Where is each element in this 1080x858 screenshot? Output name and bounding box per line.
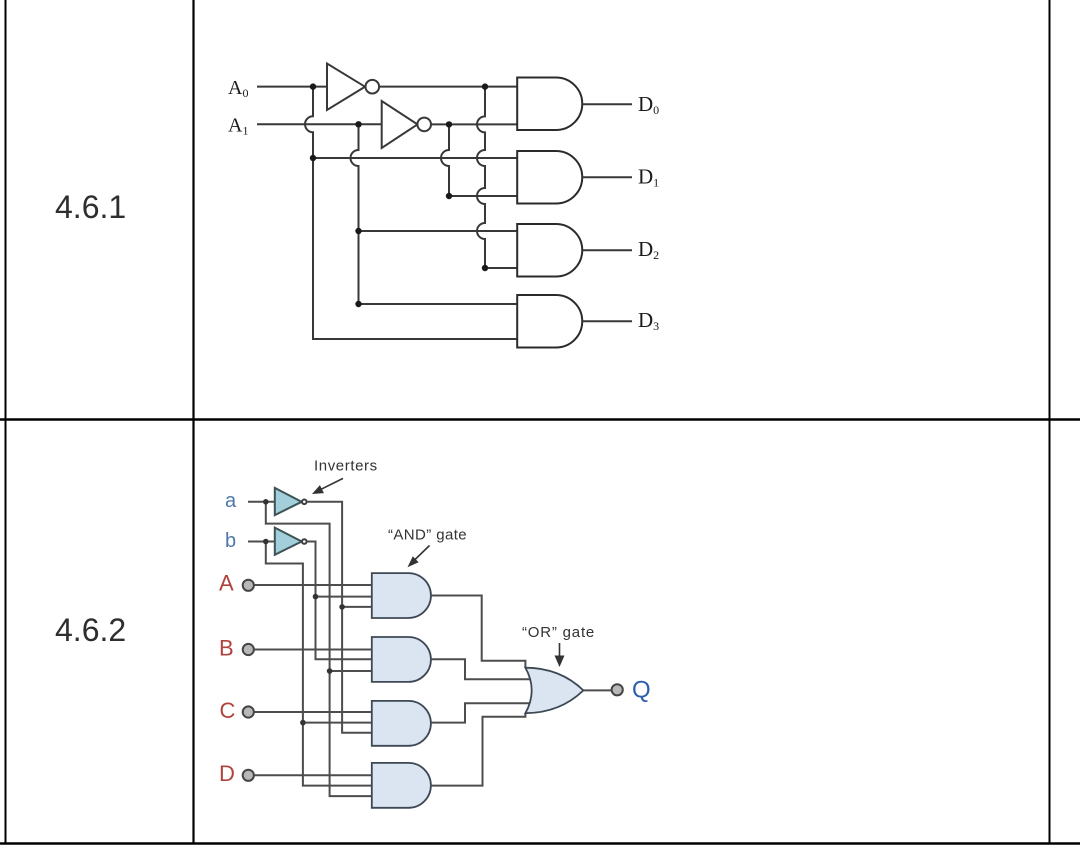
wire U2 output to gate G1 bbox=[431, 123, 518, 125]
wire NOT-b branch to AND1 bbox=[316, 596, 372, 598]
node NOT-A1 junction bbox=[446, 121, 452, 127]
wire A0 branch to gate G2 bbox=[313, 157, 518, 159]
AND gate 1 bbox=[372, 573, 431, 618]
node A1 junction bbox=[355, 121, 361, 127]
node NOT-A0 junction bbox=[482, 83, 488, 89]
input label A1 bbox=[228, 115, 248, 138]
annotation arrow to AND gate bbox=[408, 546, 430, 568]
terminal A bbox=[243, 580, 254, 591]
terminal D bbox=[243, 770, 254, 781]
wire output D0 bbox=[582, 103, 632, 105]
table bottom border bbox=[0, 842, 1080, 845]
wire b branch to AND4 bbox=[266, 542, 372, 786]
node A0-G2 junction bbox=[310, 155, 316, 161]
OR gate bbox=[525, 668, 583, 714]
svg-text:D: D bbox=[219, 761, 235, 786]
svg-text:Inverters: Inverters bbox=[314, 458, 378, 475]
node NOT-A0-G3 junction bbox=[482, 265, 488, 271]
terminal C bbox=[243, 706, 254, 717]
wire vertical NOT-A1 branch with hop bbox=[441, 124, 449, 196]
row label 4.6.1 bbox=[55, 189, 126, 225]
output label D0 bbox=[638, 92, 659, 117]
wire C input to AND3 bbox=[254, 711, 372, 713]
AND gate 2 bbox=[372, 637, 431, 682]
svg-text:a: a bbox=[225, 490, 237, 512]
table right border bbox=[1049, 0, 1051, 844]
row label 4.6.2 bbox=[55, 612, 126, 648]
wire b input bbox=[248, 541, 275, 543]
node A0 junction bbox=[310, 83, 316, 89]
wire A1 branch to gate G3 bbox=[359, 230, 518, 232]
terminal B bbox=[243, 644, 254, 655]
wire NOT-b to AND2 bbox=[307, 542, 372, 660]
node b AND3 junction bbox=[300, 720, 306, 726]
wire output D3 bbox=[582, 320, 632, 322]
table row separator bbox=[0, 418, 1080, 420]
annotation OR gate bbox=[522, 624, 595, 641]
wire AND4 output to OR bbox=[431, 713, 526, 785]
input label D bbox=[219, 761, 235, 786]
svg-text:“OR” gate: “OR” gate bbox=[522, 624, 595, 641]
input label A bbox=[219, 571, 234, 596]
inverter a bbox=[275, 488, 307, 515]
wire vertical A1 branch with hop bbox=[351, 124, 359, 304]
svg-text:Q: Q bbox=[632, 677, 651, 704]
AND gate G4 bbox=[517, 295, 582, 348]
inverter b bbox=[275, 528, 307, 555]
wire a branch to AND2 bbox=[330, 670, 372, 672]
svg-text:A: A bbox=[219, 571, 234, 596]
table left border bbox=[5, 0, 7, 844]
svg-text:4.6.1: 4.6.1 bbox=[55, 189, 126, 225]
wire a branch to AND4 bbox=[266, 502, 372, 796]
input label a bbox=[225, 490, 237, 512]
wire NOT-a branch to AND1 bbox=[342, 606, 372, 608]
node b junction bbox=[263, 539, 269, 545]
inverter U2 bbox=[382, 101, 431, 148]
node A1-G4 junction bbox=[355, 301, 361, 307]
svg-text:B: B bbox=[219, 636, 234, 661]
output label D2 bbox=[638, 237, 659, 262]
inverter U1 bbox=[327, 64, 379, 111]
AND gate G1 bbox=[517, 78, 582, 131]
svg-text:C: C bbox=[220, 698, 236, 723]
wire vertical A0 branch with hop bbox=[305, 87, 518, 339]
wire AND2 output to OR bbox=[431, 659, 533, 679]
terminal Q bbox=[612, 684, 623, 695]
wire OR output bbox=[583, 689, 612, 691]
node NOT-b AND1 junction bbox=[313, 594, 319, 600]
wire output D2 bbox=[582, 249, 632, 251]
node a AND2 junction bbox=[327, 668, 333, 674]
wire B input to AND2 bbox=[254, 649, 372, 651]
output label D1 bbox=[638, 165, 659, 190]
wire NOT-A0 branch to gate G3 bbox=[485, 267, 518, 269]
wire A0 input bbox=[257, 86, 327, 88]
input label A0 bbox=[228, 77, 248, 100]
wire U1 output to gate G1 bbox=[379, 86, 517, 88]
svg-text:b: b bbox=[225, 530, 236, 552]
annotation arrow to inverters bbox=[312, 478, 343, 494]
AND gate G3 bbox=[517, 224, 582, 277]
wire AND1 output to OR bbox=[431, 596, 526, 668]
node NOT-a AND1 junction bbox=[339, 604, 345, 610]
annotation Inverters bbox=[314, 458, 378, 475]
input label B bbox=[219, 636, 234, 661]
AND gate 3 bbox=[372, 701, 431, 746]
wire AND3 output to OR bbox=[431, 703, 533, 722]
wire output D1 bbox=[582, 176, 632, 178]
node A1-G3 junction bbox=[355, 228, 361, 234]
annotation arrow to OR gate bbox=[555, 643, 565, 667]
wire b branch to AND3 bbox=[303, 722, 372, 724]
svg-text:4.6.2: 4.6.2 bbox=[55, 612, 126, 648]
wire vertical NOT-A0 branch with hops bbox=[477, 87, 485, 268]
wire NOT-A1 branch to gate G2 bbox=[449, 195, 518, 197]
wire A input to AND1 bbox=[254, 584, 372, 586]
wire NOT-a to AND3 bbox=[307, 502, 372, 733]
AND gate G2 bbox=[517, 151, 582, 204]
wire A1 input bbox=[257, 123, 382, 125]
wire D input to AND4 bbox=[254, 774, 372, 776]
AND gate 4 bbox=[372, 763, 431, 808]
svg-text:“AND” gate: “AND” gate bbox=[388, 527, 467, 544]
wire a input bbox=[248, 501, 275, 503]
input label b bbox=[225, 530, 236, 552]
node a junction bbox=[263, 499, 269, 505]
node NOT-A1-G2 junction bbox=[446, 193, 452, 199]
input label C bbox=[220, 698, 236, 723]
annotation AND gate bbox=[388, 527, 467, 544]
table column separator bbox=[192, 0, 194, 844]
output label D3 bbox=[638, 308, 659, 333]
wire A1 branch to gate G4 bbox=[359, 303, 518, 305]
output label Q bbox=[632, 677, 651, 704]
